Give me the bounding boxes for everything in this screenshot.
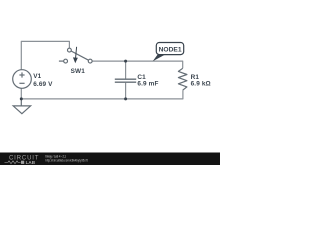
wire bottom rail	[21, 90, 183, 99]
svg-text:6.69 V: 6.69 V	[33, 81, 53, 88]
switch SW1	[59, 48, 92, 63]
capacitor C1	[115, 79, 136, 82]
label C1 value	[137, 74, 158, 87]
svg-text:hltp://circuitlab.corn/c6k4byt: hltp://circuitlab.corn/c6k4byty35s7t	[45, 158, 88, 162]
wire top-left loop from V1 top to switch pivot	[21, 41, 69, 69]
voltage source V1	[13, 70, 32, 89]
switch actuator arrow	[74, 47, 77, 62]
svg-text:LAB: LAB	[26, 160, 36, 165]
label V1 value	[33, 73, 53, 88]
label R1 value	[191, 74, 211, 88]
svg-text:6.9 mF: 6.9 mF	[137, 80, 158, 87]
ground	[13, 99, 30, 114]
svg-text:V1: V1	[33, 73, 41, 80]
node NODE1 balloon	[156, 43, 183, 55]
svg-text:6.9 kΩ: 6.9 kΩ	[191, 81, 211, 88]
wire C1 top lead	[125, 61, 127, 79]
resistor R1	[178, 68, 187, 90]
svg-text:NODE1: NODE1	[159, 46, 182, 53]
junction dot at C1 top	[124, 60, 127, 63]
wire mid rail from switch to R1 top	[92, 61, 183, 68]
footer logo resistor zigzag	[5, 161, 21, 164]
junction dot at ground node	[20, 97, 23, 100]
footer bar	[0, 153, 220, 166]
svg-text:SW1: SW1	[71, 68, 86, 75]
wire V1 bottom stub	[20, 88, 22, 99]
node NODE1 balloon tail	[153, 54, 165, 62]
wire C1 bottom lead	[125, 83, 127, 99]
footer logo LAB box	[21, 161, 24, 164]
junction dot at C1 bottom	[124, 97, 127, 100]
